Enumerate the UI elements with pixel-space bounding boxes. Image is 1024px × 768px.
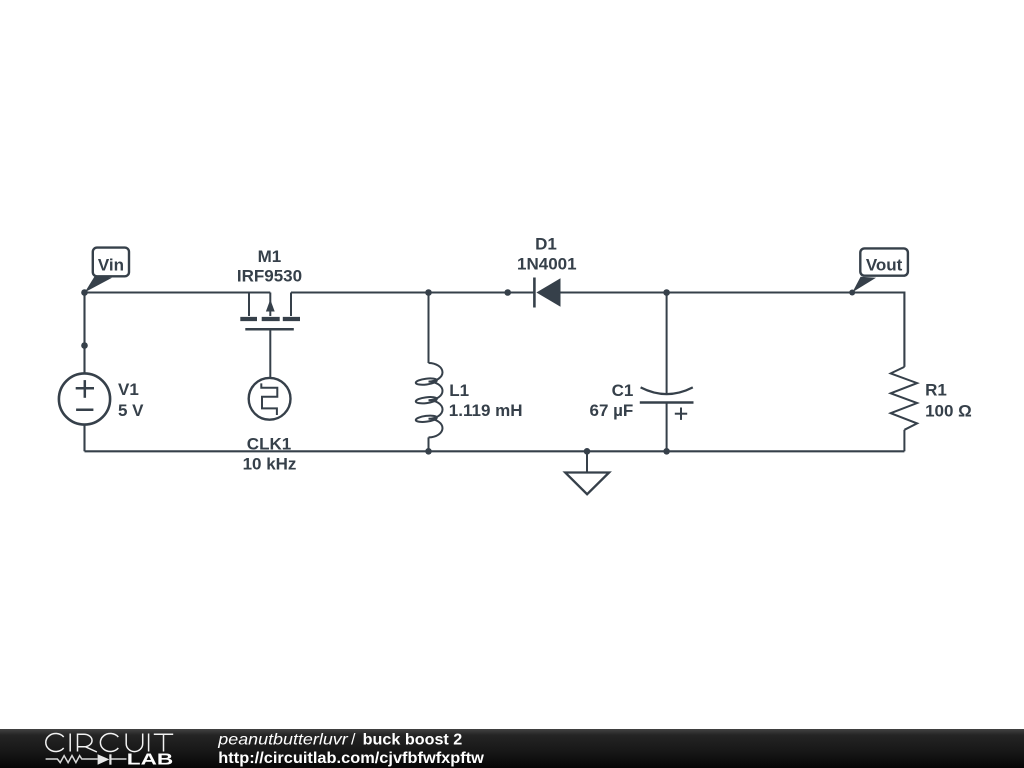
wire top rail middle: M1 to diode D1 cathode xyxy=(291,291,534,293)
svg-text:/: / xyxy=(351,731,356,748)
node junction dots xyxy=(81,289,855,454)
node L1 top xyxy=(425,289,432,296)
net flag Vin xyxy=(85,248,129,293)
logo diode xyxy=(98,754,110,764)
node ground tap xyxy=(584,448,591,455)
node diode wire joint xyxy=(504,289,511,296)
svg-text:http://circuitlab.com/cjvfbfwf: http://circuitlab.com/cjvfbfwfxpftw xyxy=(218,750,485,767)
inductor L1 xyxy=(415,293,442,452)
node V1 wire joint xyxy=(81,342,88,349)
transistor M1 (IRF9530 P-MOSFET) xyxy=(240,293,300,378)
capacitor C1 xyxy=(640,293,694,452)
CircuitLab logo wordmark CIRCUIT xyxy=(46,733,173,752)
node Vout tap xyxy=(849,290,855,296)
svg-text:peanutbutterluvr: peanutbutterluvr xyxy=(217,731,348,748)
logo resistor squiggle xyxy=(46,756,98,763)
clock source CLK1 xyxy=(249,378,291,420)
diode D1 (1N4001) xyxy=(534,278,560,308)
wire top rail right: D1 anode to R1 top corner xyxy=(561,293,905,367)
net flag Vout xyxy=(852,248,907,292)
footer bar xyxy=(0,729,1024,768)
wire top rail left: Vin node to M1 xyxy=(85,291,271,293)
node C1 top xyxy=(663,289,670,296)
voltage source V1 xyxy=(59,373,110,424)
svg-text:LAB: LAB xyxy=(127,751,173,768)
node C1 bottom xyxy=(663,448,670,455)
wire bottom rail xyxy=(85,450,905,452)
wire V1 bottom xyxy=(83,425,85,452)
wire left branch V1 top xyxy=(83,293,85,374)
ground xyxy=(565,451,609,494)
svg-text:buck boost 2: buck boost 2 xyxy=(363,731,463,748)
node L1 bottom xyxy=(425,448,432,455)
node Vin tap xyxy=(81,289,88,296)
resistor R1 xyxy=(891,367,917,451)
